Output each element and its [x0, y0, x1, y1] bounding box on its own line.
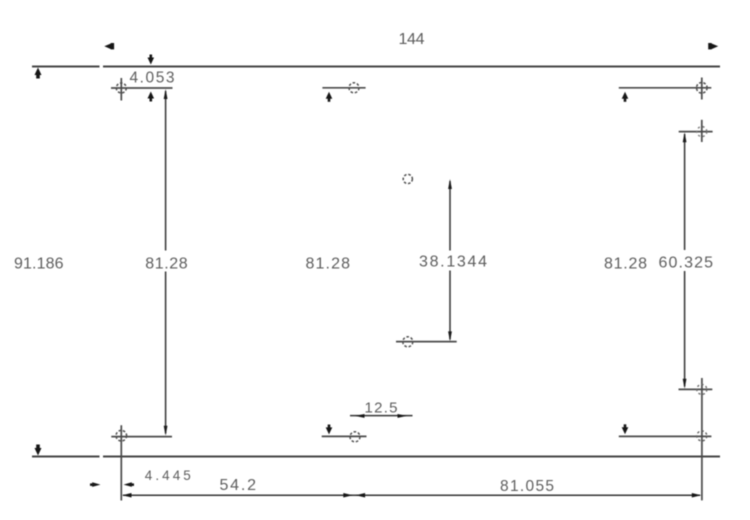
svg-text:60.325: 60.325: [659, 255, 714, 272]
svg-text:81.28: 81.28: [604, 256, 647, 273]
svg-text:4.445: 4.445: [145, 468, 191, 483]
svg-text:81.28: 81.28: [145, 256, 188, 273]
svg-text:81.28: 81.28: [306, 256, 351, 273]
svg-text:144: 144: [399, 31, 425, 48]
svg-text:91.186: 91.186: [14, 255, 64, 272]
svg-text:38.1344: 38.1344: [419, 254, 487, 271]
svg-text:54.2: 54.2: [220, 477, 257, 494]
svg-text:12.5: 12.5: [365, 399, 398, 416]
svg-text:81.055: 81.055: [500, 478, 554, 495]
svg-text:4.053: 4.053: [130, 70, 175, 87]
